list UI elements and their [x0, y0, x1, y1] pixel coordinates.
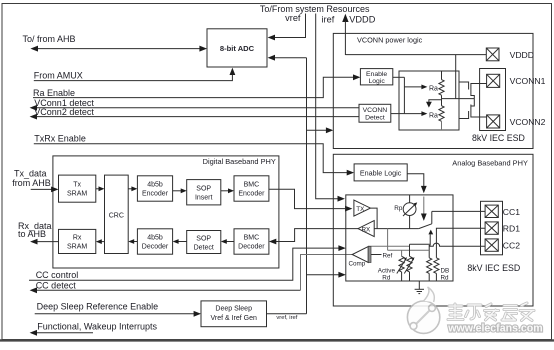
node RD1 label: [503, 224, 520, 234]
svg-text:RD1: RD1: [503, 224, 520, 234]
transistor Q2 (VCONN2 pass FET): [459, 99, 487, 119]
node Active Rd label: [378, 267, 396, 281]
comparator Comp: [349, 247, 372, 268]
wire CRC to Rx SRAM: [96, 239, 105, 244]
svg-text:Insert: Insert: [195, 194, 213, 201]
svg-text:Enable: Enable: [366, 71, 387, 78]
svg-text:from AHB: from AHB: [12, 178, 51, 188]
svg-text:Enable Logic: Enable Logic: [360, 168, 402, 177]
svg-text:Detect: Detect: [365, 115, 385, 122]
wire CRC to 4b5b Encoder: [128, 186, 137, 191]
svg-text:Detect: Detect: [194, 244, 214, 251]
node Ra Enable label: [33, 88, 75, 98]
wire comparator sense rail: [388, 229, 430, 251]
wire VConn2 detect: [30, 114, 359, 120]
resistor Ra1: [439, 71, 444, 99]
wire CC2 line with hop to switch column: [368, 243, 485, 246]
svg-text:Functional, Wakeup Interrupts: Functional, Wakeup Interrupts: [37, 322, 157, 332]
svg-text:Comp: Comp: [349, 260, 366, 267]
node Deep Sleep Reference Enable label: [37, 301, 159, 311]
wire VDDD with up arrow: [342, 14, 486, 99]
block VCONN Detect: [359, 104, 391, 122]
svg-text:Decoder: Decoder: [238, 244, 265, 251]
watermark logo: [407, 287, 439, 333]
block 4b5b Encoder: [137, 176, 172, 201]
resistor Rp (adjustable current source): [394, 195, 417, 229]
resistor Active Rd 2: [404, 256, 414, 281]
node 8kV IEC ESD label (CC): [467, 263, 520, 273]
block: VCONN power logic box: [333, 33, 533, 148]
svg-text:Tx_data: Tx_data: [14, 169, 47, 179]
block Deep Sleep Vref and Iref Gen: [201, 301, 267, 327]
svg-text:Active: Active: [378, 267, 396, 274]
block SOP Insert: [187, 180, 221, 205]
svg-text:SOP: SOP: [196, 235, 211, 242]
svg-text:BMC: BMC: [244, 235, 260, 242]
svg-text:Tx: Tx: [73, 182, 81, 189]
svg-text:CC detect: CC detect: [36, 280, 77, 290]
node CC detect label: [36, 280, 77, 290]
node CC control label: [36, 270, 79, 280]
node iref label: [322, 15, 335, 25]
node VConn2 detect label: [34, 107, 94, 117]
wire CC1 line to pad: [432, 210, 485, 212]
wire Deep Sleep Reference Enable: [35, 311, 201, 317]
svg-text:Rd: Rd: [382, 275, 391, 282]
svg-text:VDDD: VDDD: [349, 15, 375, 25]
svg-text:Ra: Ra: [429, 112, 438, 119]
block CRC: [105, 175, 129, 253]
node DB Rd label: [441, 267, 450, 281]
node Ra label 1: [429, 85, 438, 92]
svg-text:TxRx Enable: TxRx Enable: [34, 133, 86, 143]
block Ra network box: [399, 71, 459, 130]
svg-text:Deep Sleep: Deep Sleep: [215, 306, 252, 313]
block analog front-end inner box: [346, 195, 453, 281]
svg-text:Rd: Rd: [441, 275, 450, 282]
node Rx_data to AHB label: [18, 221, 52, 239]
svg-text:SOP: SOP: [196, 185, 211, 192]
wire CC node line to switch: [374, 228, 419, 230]
watermark url text: [447, 323, 542, 335]
wire Tx SRAM to CRC: [96, 186, 105, 191]
node VCONN1 pad label: [510, 76, 546, 86]
block 4b5b Decoder: [137, 229, 172, 254]
svg-text:CC1: CC1: [503, 207, 520, 217]
node VCONN2 pad label: [510, 117, 546, 127]
svg-text:From AMUX: From AMUX: [34, 70, 83, 80]
svg-text:VCONN1: VCONN1: [510, 76, 546, 86]
wire Functional Wakeup Interrupts: [30, 330, 93, 336]
svg-text:4b5b: 4b5b: [147, 182, 163, 189]
svg-text:VConn2 detect: VConn2 detect: [34, 107, 94, 117]
node Functional Wakeup Interrupts label: [37, 322, 157, 332]
resistor Active Rd 1: [397, 256, 407, 281]
svg-text:To/From system Resources: To/From system Resources: [260, 4, 370, 14]
svg-text:RX: RX: [362, 226, 372, 233]
node 8kV IEC ESD label (VCONN): [472, 133, 525, 143]
svg-text:Ref: Ref: [383, 253, 393, 260]
node vref label: [285, 13, 301, 23]
block Enable Logic (VCONN): [360, 69, 392, 86]
svg-text:VDDD: VDDD: [510, 50, 534, 60]
node VDDD label: [349, 15, 375, 25]
svg-text:Vref & Iref Gen: Vref & Iref Gen: [210, 315, 257, 322]
svg-text:Encoder: Encoder: [142, 191, 169, 198]
svg-text:Rp: Rp: [394, 205, 403, 212]
wire CC detect from comparator: [30, 255, 353, 294]
wire 4b5b Encoder to SOP Insert: [173, 188, 187, 193]
wire TxRx Enable to analog enable logic: [34, 144, 354, 176]
svg-text:8kV IEC ESD: 8kV IEC ESD: [472, 133, 525, 143]
node TxRx Enable label: [34, 133, 86, 143]
block 8kV IEC ESD pads (VCONN): [480, 69, 506, 131]
svg-text:to AHB: to AHB: [18, 229, 46, 239]
node CC1 label: [503, 207, 520, 217]
resistor Ra2: [439, 99, 444, 130]
block: Analog Baseband PHY box: [333, 154, 533, 306]
svg-text:Ra: Ra: [429, 85, 438, 92]
wire Enable Logic to Ra network: [393, 77, 428, 116]
node VConn1 detect label: [34, 98, 94, 108]
svg-text:Rx: Rx: [73, 234, 82, 241]
wire TX output to CC node: [370, 208, 377, 229]
transistor Q1 (VCONN1 pass FET): [459, 82, 487, 99]
wire Rx_data out of Rx SRAM: [30, 239, 58, 245]
svg-text:Digital Baseband PHY: Digital Baseband PHY: [203, 157, 276, 166]
svg-text:SRAM: SRAM: [67, 191, 87, 198]
ADC U1: 8-bit ADC: [207, 29, 267, 67]
wire VCONN Detect to Ra network: [391, 113, 405, 115]
pad VCONN1: [487, 74, 500, 87]
wire CC control into analog PHY: [29, 245, 346, 280]
wire Enable Logic to switch control: [407, 174, 427, 221]
svg-text:vref, iref: vref, iref: [276, 315, 297, 321]
watermark chinese text: [448, 303, 534, 321]
wire Ra Enable to VCONN enable logic: [33, 74, 360, 97]
node CC2 label: [503, 241, 520, 251]
wire SOP Detect to 4b5b Decoder: [173, 239, 187, 244]
pad VDDD: [486, 48, 499, 61]
wire VConn1 detect: [30, 105, 359, 111]
svg-text:SRAM: SRAM: [67, 243, 87, 250]
svg-text:To/ from AHB: To/ from AHB: [23, 34, 76, 44]
node To/ from AHB label: [23, 34, 76, 44]
block SOP Detect: [187, 231, 221, 254]
wire Tx_data into Tx SRAM: [31, 187, 59, 193]
node From AMUX label: [34, 70, 83, 80]
buffer TX: [354, 200, 371, 216]
block Tx SRAM: [59, 175, 96, 202]
svg-text:iref: iref: [322, 15, 335, 25]
node Tx_data from AHB label: [12, 169, 51, 189]
block: Digital Baseband PHY box: [53, 156, 279, 268]
block Rx SRAM: [59, 229, 96, 253]
block 8kV IEC ESD pads (CC): [481, 201, 503, 255]
svg-text:8-bit ADC: 8-bit ADC: [220, 44, 255, 53]
svg-text:Ra Enable: Ra Enable: [33, 88, 75, 98]
svg-text:8kV IEC ESD: 8kV IEC ESD: [467, 263, 520, 273]
wire From AMUX into ADC bottom: [34, 68, 236, 81]
wire Active Rd2 top link: [410, 244, 431, 256]
ground: [415, 281, 424, 294]
resistor DB Rd 2: [434, 258, 439, 281]
svg-text:CC control: CC control: [36, 270, 79, 280]
switch SW1 blade: [419, 211, 434, 257]
node: To/From system Resources label: [260, 4, 370, 14]
block BMC Encoder: [234, 176, 269, 201]
wire RD1 line to DB Rd: [436, 228, 485, 258]
svg-text:Encoder: Encoder: [238, 191, 265, 198]
node VDDD pad label: [510, 50, 534, 60]
svg-text:Decoder: Decoder: [142, 244, 169, 251]
pad CC1: [485, 205, 498, 217]
node Ref label: [371, 253, 393, 260]
svg-text:VCONN2: VCONN2: [510, 117, 546, 127]
wire BMC Encoder output to TX buffer: [269, 189, 353, 211]
wire vref-iref distribution net (ADC / VCONN / analog / deep sleep): [267, 55, 346, 314]
node Ra label 2: [429, 112, 438, 119]
svg-text:CRC: CRC: [109, 213, 124, 220]
svg-text:4b5b: 4b5b: [147, 235, 163, 242]
wire 4b5b Decoder to CRC: [128, 239, 137, 244]
svg-text:DB: DB: [441, 267, 450, 274]
svg-text:Deep Sleep Reference Enable: Deep Sleep Reference Enable: [37, 301, 159, 311]
pad CC2: [485, 239, 498, 251]
wire BMC Decoder to SOP Detect: [221, 239, 234, 244]
resistor DB Rd 1: [427, 258, 432, 281]
node vref iref output label: [276, 315, 297, 321]
pad RD1: [485, 222, 498, 234]
wire Ra middle node arrow: [426, 100, 442, 108]
svg-text:BMC: BMC: [244, 182, 260, 189]
svg-text:vref: vref: [285, 13, 301, 23]
svg-text:CC2: CC2: [503, 241, 520, 251]
wire iref vertical with branch into analog PHY: [316, 14, 345, 202]
wire vref to ADC: [268, 14, 306, 41]
svg-text:TX: TX: [356, 206, 365, 213]
svg-text:Logic: Logic: [368, 78, 385, 85]
wire Active Rd1 top link: [401, 250, 403, 256]
svg-text:www.elecfans.com: www.elecfans.com: [447, 323, 542, 335]
block Enable Logic (analog): [354, 164, 407, 181]
block BMC Decoder: [234, 229, 269, 254]
svg-text:VCONN power logic: VCONN power logic: [357, 35, 423, 44]
wire RX buffer output to BMC Decoder: [269, 229, 358, 245]
wire SOP Insert to BMC Encoder: [221, 188, 234, 193]
buffer RX: [358, 221, 374, 237]
svg-text:Analog Baseband PHY: Analog Baseband PHY: [452, 159, 528, 168]
pad VCONN2: [487, 115, 500, 128]
wire To/from AHB double arrow to ADC: [30, 46, 207, 52]
svg-text:VCONN: VCONN: [363, 107, 388, 114]
